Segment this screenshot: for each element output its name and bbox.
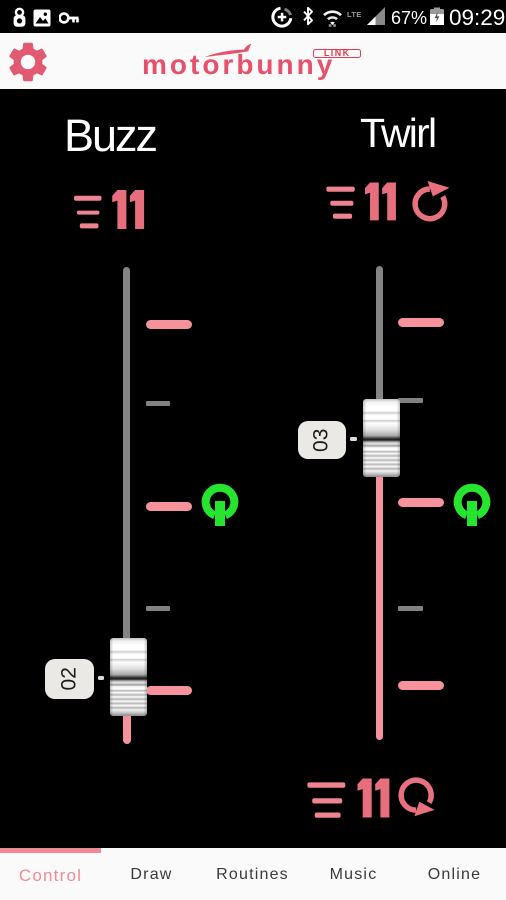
left slider gray track: [123, 267, 130, 640]
header bar: [0, 33, 506, 89]
right slider pink track: [376, 476, 384, 740]
right green power icon: [451, 481, 493, 529]
status text: LTE: [347, 10, 367, 19]
settings gear: [4, 38, 52, 86]
right pointer dash: [350, 437, 357, 441]
buzz level lines: [74, 196, 102, 229]
left thumb: [110, 638, 147, 716]
title Buzz: [64, 113, 156, 158]
twirl level digits 11: [365, 183, 396, 221]
title Twirl: [360, 113, 435, 154]
right thumb: [363, 399, 400, 477]
right label bubble 03: [298, 421, 346, 460]
status text: clock: [449, 5, 505, 31]
logo: motorbunny: [142, 51, 335, 79]
status icon: battery: [429, 7, 445, 25]
left ticks: [146, 320, 192, 329]
twirl level lines: [326, 187, 354, 219]
status icon: wifi: [322, 7, 343, 27]
left pointer dash: [98, 676, 105, 680]
status bar: [0, 0, 506, 33]
right slider gray track: [376, 266, 383, 400]
right ticks: [398, 318, 444, 327]
status text: 67%: [391, 8, 427, 29]
bottom counter-clockwise arrow: [401, 780, 434, 816]
status icon: data saver: [271, 6, 293, 28]
bottom twirl level lines: [307, 782, 345, 817]
status icon: bluetooth: [301, 6, 315, 26]
status icon: signal: [366, 7, 386, 26]
left label bubble 02: [45, 659, 94, 699]
twirl clockwise arrow: [415, 181, 449, 219]
buzz level digits 11: [112, 190, 144, 229]
logo swoosh: [200, 41, 260, 61]
bottom twirl digits 11: [358, 779, 390, 818]
tab bar: [0, 848, 506, 900]
status icon: image: [33, 9, 51, 27]
left green power icon: [199, 481, 241, 529]
status icon: key: [59, 11, 79, 25]
status icon: lock: [12, 7, 27, 28]
logo LINK badge: [313, 49, 361, 58]
left slider pink track: [123, 714, 131, 744]
